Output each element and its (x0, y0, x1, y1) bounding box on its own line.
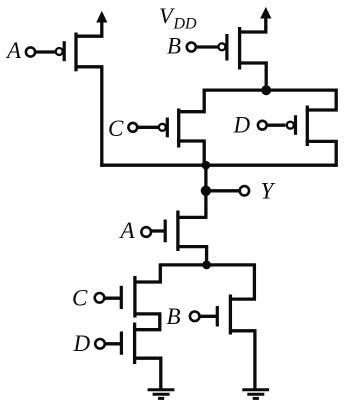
input terminal A2 (open circle) (141, 227, 151, 237)
input terminal D (open circle) (258, 121, 267, 130)
transistor Q2 PMOS (input B): bubble, gate bar, channel bar (218, 27, 239, 70)
input terminal D2 (open circle) (95, 339, 105, 349)
input terminal B2 (open circle) (190, 312, 200, 322)
wire Q4 source up to N1 rail (306, 89, 336, 111)
wire Q5 drain lead (176, 216, 207, 219)
label VDD (159, 3, 197, 33)
transistor Q3 PMOS (input C): bubble, gate bar, channel bar (159, 109, 179, 148)
transistor Q8 NMOS (input B): gate bar, channel bar (217, 295, 230, 335)
transistor Q7 NMOS (input D): gate bar, channel bar (121, 323, 134, 365)
svg-text:B: B (167, 34, 181, 59)
wire N1 rail to Q3 and Q4 sources (204, 88, 336, 91)
svg-text:D: D (73, 331, 91, 356)
wire node Y to output terminal (206, 189, 240, 192)
node N1 junction dot (Q2 drain to C/D sources) (261, 85, 271, 95)
ground 2 symbol (242, 390, 269, 399)
svg-text:A: A (119, 218, 136, 243)
wire B terminal to Q2 gate bubble (196, 45, 218, 48)
VDD power arrow (right) (261, 8, 271, 18)
svg-text:DD: DD (173, 16, 198, 33)
wire pull-up output rail (node Y top) (100, 164, 337, 167)
wire N2 down to Q6 drain (134, 263, 161, 282)
node Y junction dot (201, 186, 211, 196)
wire A terminal to Q1 gate bubble (35, 50, 55, 53)
input terminal C (open circle) (128, 123, 137, 132)
input terminal A (open circle) (26, 47, 35, 56)
wire Q1 source to VDD arrow (75, 20, 102, 37)
input terminal B (open circle) (187, 43, 196, 52)
transistor Q4 PMOS (input D): bubble, gate bar, channel bar (287, 106, 308, 147)
output terminal Y (open circle) (240, 186, 249, 195)
wire Q8 source down to ground 2 (229, 331, 255, 389)
wire Q7 source down to ground 1 (133, 358, 161, 388)
node N2 junction dot (202, 261, 211, 270)
wire Q6 source to Q7 drain (133, 314, 160, 330)
svg-text:C: C (108, 116, 124, 141)
wire Q2 source to VDD arrow (238, 16, 266, 33)
svg-text:Y: Y (261, 179, 276, 204)
svg-text:B: B (167, 304, 181, 329)
wire C2 terminal to Q6 gate (104, 297, 121, 300)
wire Q3 drain down to pull-up output rail (177, 141, 204, 167)
svg-text:D: D (233, 113, 251, 138)
svg-text:A: A (5, 38, 22, 63)
wire Q4 drain down to pull-up output rail (306, 141, 336, 166)
wire N2 down to Q8 drain (229, 263, 254, 299)
wire B2 terminal to Q8 gate (200, 315, 218, 318)
wire D2 terminal to Q7 gate (105, 342, 122, 345)
wire A2 terminal to Q5 gate (151, 229, 165, 232)
wire Q3 source up to N1 rail (177, 89, 204, 112)
ground 1 symbol (148, 390, 175, 399)
input terminal C2 (open circle) (95, 293, 105, 303)
wire D terminal to Q4 gate bubble (267, 124, 286, 127)
VDD power arrow (left) (97, 12, 107, 22)
wire Q2 drain down to node N1 (238, 63, 266, 91)
wire N2 rail (160, 263, 254, 266)
wire output rail down to Q5 drain (204, 165, 207, 217)
transistor Q1 PMOS (input A): bubble, gate bar, channel bar (56, 33, 76, 72)
wire Q5 source down to node N2 (176, 247, 206, 267)
svg-text:C: C (72, 286, 88, 311)
transistor Q5 NMOS (input A): gate bar, channel bar (165, 211, 178, 252)
transistor Q6 NMOS (input C): gate bar, channel bar (121, 276, 135, 318)
wire Q1 drain down to pull-up output rail (75, 67, 102, 167)
node junction dot on output rail (202, 161, 211, 170)
wire C terminal to Q3 gate bubble (137, 126, 158, 129)
